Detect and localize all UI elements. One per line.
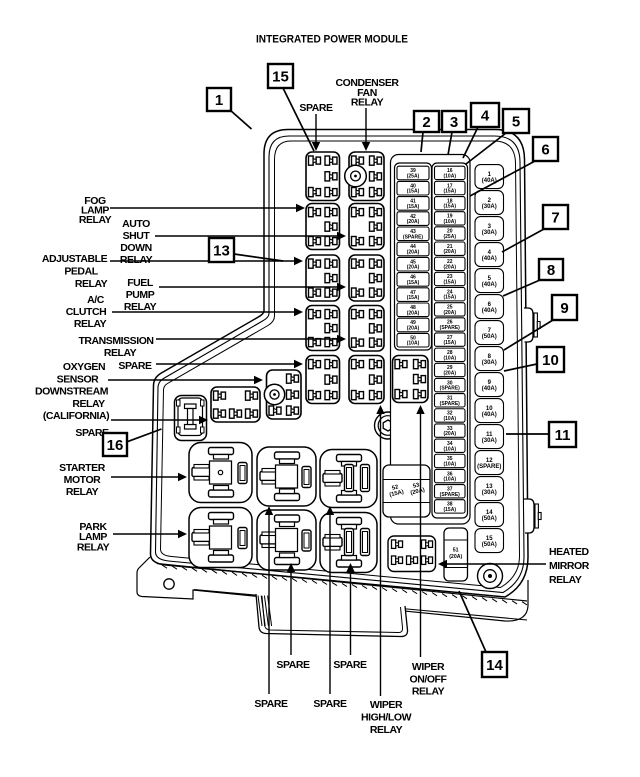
auto shut down relay B2 [349, 204, 384, 250]
svg-text:RELAY: RELAY [370, 724, 403, 736]
adjustable pedal relay A3 [306, 255, 340, 301]
label fog lamp relay [79, 195, 112, 226]
label spare (portrait relay) [75, 427, 109, 439]
svg-text:(25A): (25A) [407, 174, 420, 180]
svg-text:(50A): (50A) [482, 516, 497, 522]
callout 11 [506, 422, 576, 447]
svg-text:(15A): (15A) [443, 507, 456, 513]
svg-text:10: 10 [486, 406, 493, 412]
svg-text:(15A): (15A) [407, 204, 420, 210]
svg-text:RELAY: RELAY [120, 254, 153, 266]
condenser fan relay B1 [345, 152, 384, 201]
label auto shut down relay [120, 218, 153, 266]
svg-text:(15A): (15A) [443, 204, 456, 210]
svg-text:4: 4 [481, 107, 490, 124]
callout 8 [503, 259, 563, 296]
spare iso relay r1c2 [257, 447, 316, 506]
svg-text:(20A): (20A) [443, 264, 456, 270]
svg-text:(20A): (20A) [407, 265, 420, 271]
svg-text:WIPER: WIPER [370, 699, 403, 711]
svg-text:DOWN: DOWN [120, 242, 151, 254]
svg-text:RELAY: RELAY [351, 97, 384, 109]
wiper on/off relay C5 [393, 356, 429, 403]
svg-text:RELAY: RELAY [124, 301, 157, 313]
svg-text:(40A): (40A) [482, 256, 497, 262]
label adjustable pedal relay [42, 253, 108, 265]
callout 1 [207, 88, 252, 129]
svg-text:SPARE: SPARE [276, 659, 310, 671]
svg-text:(15A): (15A) [407, 295, 420, 301]
svg-text:(15A): (15A) [443, 340, 456, 346]
label spare bottom 1 [276, 659, 310, 671]
svg-text:(20A): (20A) [443, 431, 456, 437]
oxygen sensor downstream relay [264, 370, 301, 419]
svg-text:OXYGEN: OXYGEN [63, 361, 105, 373]
svg-text:8: 8 [547, 262, 555, 279]
spare 6-pin block [211, 387, 487, 777]
svg-text:(40A): (40A) [482, 308, 497, 314]
svg-text:(25A): (25A) [443, 234, 456, 240]
svg-text:2: 2 [422, 114, 430, 131]
label spare bottom 2 [333, 659, 367, 671]
relay block A1 (spare) [306, 152, 340, 201]
label heated mirror relay [549, 546, 590, 586]
svg-text:(10A): (10A) [443, 477, 456, 483]
transmission relay B4 [349, 306, 384, 352]
svg-text:(30A): (30A) [482, 360, 497, 366]
callout 2 [414, 111, 439, 152]
svg-text:(40A): (40A) [482, 282, 497, 288]
svg-text:(20A): (20A) [407, 219, 420, 225]
svg-text:RELAY: RELAY [74, 318, 107, 330]
svg-text:ON/OFF: ON/OFF [410, 673, 448, 685]
svg-text:SENSOR: SENSOR [57, 373, 100, 385]
svg-text:13: 13 [213, 242, 230, 259]
wiper high/low relay B5 [349, 356, 384, 404]
svg-text:(CALIFORNIA): (CALIFORNIA) [43, 410, 109, 422]
svg-text:RELAY: RELAY [66, 486, 99, 498]
case wall inner contour (deck edge) [161, 141, 520, 588]
label transmission relay [78, 335, 153, 347]
svg-text:SPARE: SPARE [299, 102, 333, 114]
callout 15 [268, 64, 314, 151]
right connector tab lower [524, 499, 534, 533]
svg-text:1: 1 [215, 92, 223, 109]
svg-text:5: 5 [512, 113, 520, 130]
svg-text:TRANSMISSION: TRANSMISSION [78, 335, 153, 347]
label wiper on/off relay [410, 661, 448, 698]
maxi fuse column 1-15 [475, 165, 504, 553]
label spare bottom 4 [313, 698, 347, 710]
callout 16 [103, 429, 162, 456]
svg-text:RELAY: RELAY [77, 541, 110, 553]
svg-text:14: 14 [486, 510, 493, 516]
svg-text:SPARE: SPARE [254, 698, 288, 710]
svg-text:16: 16 [107, 437, 124, 454]
power module case outer contour [151, 130, 529, 598]
starter motor relay [189, 443, 252, 503]
svg-text:(15A): (15A) [407, 280, 420, 286]
spare iso relay r2c3 [320, 513, 377, 573]
svg-text:(SPARE): (SPARE) [403, 234, 424, 240]
svg-text:SPARE: SPARE [118, 360, 152, 372]
svg-text:RELAY: RELAY [549, 574, 582, 586]
svg-text:(15A): (15A) [443, 280, 456, 286]
svg-text:(20A): (20A) [443, 310, 456, 316]
label spare (row5) [118, 360, 152, 372]
fuse block 52/53 [383, 465, 430, 517]
svg-text:(10A): (10A) [407, 341, 420, 347]
label wiper high/low relay [361, 699, 412, 736]
svg-text:(20A): (20A) [407, 250, 420, 256]
drawer left hatch [258, 596, 272, 627]
spare iso relay r2c2 [257, 510, 316, 570]
fuse strip 16-38 [432, 163, 468, 518]
svg-text:(30A): (30A) [482, 438, 497, 444]
svg-text:(15A): (15A) [443, 189, 456, 195]
right connector tab upper [524, 308, 533, 342]
svg-text:(20A): (20A) [449, 554, 462, 560]
svg-text:14: 14 [486, 657, 503, 674]
spare relay (portrait, #16 area) [175, 396, 207, 441]
svg-text:15: 15 [272, 68, 289, 85]
a/c clutch relay A4 [306, 306, 340, 351]
svg-text:(50A): (50A) [482, 542, 497, 548]
fuse strip 39-50 [395, 163, 432, 350]
svg-text:(SPARE): (SPARE) [477, 464, 501, 470]
svg-text:CLUTCH: CLUTCH [66, 306, 106, 318]
svg-text:INTEGRATED POWER MODULE: INTEGRATED POWER MODULE [256, 34, 408, 46]
label park lamp relay [77, 521, 110, 553]
svg-text:(40A): (40A) [482, 386, 497, 392]
fuse block boundary [391, 155, 471, 525]
svg-text:AUTO: AUTO [122, 218, 150, 230]
svg-text:MOTOR: MOTOR [64, 474, 102, 486]
svg-text:(10A): (10A) [443, 219, 456, 225]
svg-text:10: 10 [542, 352, 559, 369]
callout 5 [466, 109, 529, 164]
svg-text:(SPARE): (SPARE) [440, 386, 461, 392]
svg-text:ADJUSTABLE: ADJUSTABLE [42, 253, 108, 265]
spare iso relay r1c3 [320, 450, 377, 508]
svg-text:STARTER: STARTER [59, 462, 106, 474]
svg-text:9: 9 [560, 300, 568, 317]
callout 3 [442, 111, 466, 155]
svg-text:RELAY: RELAY [104, 347, 137, 359]
svg-text:A/C: A/C [87, 294, 105, 306]
svg-text:(30A): (30A) [482, 490, 497, 496]
svg-text:HIGH/LOW: HIGH/LOW [361, 712, 412, 724]
top spare arrow [299, 102, 333, 114]
label starter motor relay [59, 462, 106, 498]
svg-text:(10A): (10A) [443, 416, 456, 422]
callout 14 [459, 591, 507, 677]
svg-text:(20A): (20A) [407, 310, 420, 316]
callout 13 [209, 238, 283, 262]
spare relay A5 [306, 356, 340, 404]
fuse 51 [444, 528, 468, 581]
svg-text:(15A): (15A) [407, 189, 420, 195]
svg-text:11: 11 [555, 427, 571, 444]
svg-text:RELAY: RELAY [72, 398, 105, 410]
svg-text:SPARE: SPARE [313, 698, 347, 710]
svg-text:RELAY: RELAY [412, 686, 445, 698]
flange hatch marks [162, 565, 527, 605]
fog lamp relay A2 [306, 204, 340, 250]
label spare bottom 3 [254, 698, 288, 710]
svg-text:(30A): (30A) [482, 230, 497, 236]
case wall middle contour [156, 136, 525, 593]
svg-text:(20A): (20A) [443, 249, 456, 255]
pull-out drawer tray [256, 594, 408, 637]
svg-text:(SPARE): (SPARE) [440, 492, 461, 498]
callout 4 [463, 103, 499, 158]
svg-text:(10A): (10A) [443, 173, 456, 179]
label oxygen sensor downstream relay [63, 361, 105, 373]
svg-text:(10A): (10A) [443, 446, 456, 452]
callout 7 [502, 205, 568, 252]
svg-text:RELAY: RELAY [79, 214, 112, 226]
svg-text:(20A): (20A) [407, 326, 420, 332]
svg-text:(50A): (50A) [482, 334, 497, 340]
svg-text:51: 51 [453, 548, 459, 554]
svg-text:FUEL: FUEL [127, 277, 154, 289]
svg-text:(10A): (10A) [443, 461, 456, 467]
callout 10 [504, 347, 564, 372]
mounting flange band [137, 557, 528, 621]
svg-text:15: 15 [486, 536, 493, 542]
wiper relays block bottom [388, 536, 436, 572]
svg-text:SHUT: SHUT [123, 230, 151, 242]
label fuel pump relay [124, 277, 157, 313]
svg-text:7: 7 [551, 209, 559, 226]
svg-text:(30A): (30A) [482, 204, 497, 210]
svg-text:MIRROR: MIRROR [549, 560, 590, 572]
svg-text:(10A): (10A) [443, 355, 456, 361]
svg-text:(15A): (15A) [443, 295, 456, 301]
svg-text:RELAY: RELAY [75, 278, 108, 290]
svg-text:12: 12 [486, 458, 493, 464]
svg-text:13: 13 [486, 484, 493, 490]
svg-text:3: 3 [450, 114, 458, 131]
svg-text:WIPER: WIPER [412, 661, 445, 673]
svg-text:(40A): (40A) [482, 412, 497, 418]
hex nut boss centre [375, 412, 402, 439]
svg-text:(20A): (20A) [443, 370, 456, 376]
svg-text:(SPARE): (SPARE) [440, 401, 461, 407]
label a/c clutch relay [87, 294, 105, 306]
svg-text:HEATED: HEATED [549, 546, 590, 558]
callout 9 [504, 295, 577, 350]
svg-text:PUMP: PUMP [126, 289, 155, 301]
callout 6 [470, 137, 558, 196]
condenser fan relay label [335, 77, 399, 109]
svg-text:(SPARE): (SPARE) [440, 325, 461, 331]
svg-text:PEDAL: PEDAL [64, 266, 98, 278]
svg-text:DOWNSTREAM: DOWNSTREAM [35, 386, 109, 398]
park lamp relay [189, 508, 252, 568]
flange bolt hole [164, 579, 174, 589]
fuel pump relay B3 [349, 255, 384, 301]
svg-text:6: 6 [541, 141, 549, 158]
svg-text:SPARE: SPARE [333, 659, 367, 671]
screw boss bottom-right [478, 564, 503, 589]
svg-text:11: 11 [486, 432, 493, 438]
